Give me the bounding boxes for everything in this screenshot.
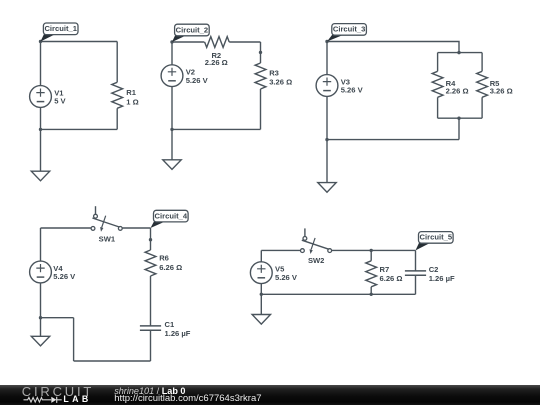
label C2 "1.26 µF" [429,265,455,283]
svg-text:C1: C1 [165,320,175,329]
wire ground stem ckt2 [171,129,173,159]
label R5 "3.26 Ω" [490,79,513,95]
node junction bottom-left C1ckt [39,128,42,131]
ground (circuit 1) [31,171,49,181]
voltage source V3 [316,75,338,97]
wire ground stem [40,129,42,171]
label R3 "3.26 Ω" [269,68,292,86]
wire V4 to SW1 [41,227,92,229]
wire C2 top lead [415,250,417,271]
node parallel bottom junction [457,117,460,120]
svg-text:2.26 Ω: 2.26 Ω [205,58,228,67]
wire V2 top lead [171,42,173,65]
wire R4 top lead [437,53,439,72]
label R1 "1 Ω" [126,88,138,107]
wire V1 bottom lead [40,107,42,129]
label R6 "6.26 Ω" [159,254,182,272]
node junction V4 bottom [39,316,42,319]
wire C2 bottom lead [415,275,417,294]
resistor R7 [366,261,377,287]
wire SW1 to corner [122,227,150,229]
wire R6 top lead [150,228,152,250]
wire ground stem ckt5 [260,294,262,314]
label V2 "5.26 V" [186,68,209,85]
svg-text:Circuit_1: Circuit_1 [44,24,77,33]
wire ground stem ckt3 [326,140,328,183]
node Circuit_1 (top-left junction) [39,40,42,43]
label R2 "2.26 Ω" [205,51,228,67]
wire V2 bottom lead [171,87,173,130]
node junction bottom-left ckt3 [325,138,328,141]
svg-text:3.26 Ω: 3.26 Ω [269,78,292,87]
label V4 "5.26 V" [53,264,76,281]
wire V3 bottom lead [326,96,328,139]
wire V5 bottom lead [260,284,262,295]
wire R3 top lead [260,42,262,63]
wire R1 bottom lead [116,108,118,129]
label R7 "6.26 Ω" [380,265,403,283]
svg-text:Circuit_4: Circuit_4 [155,211,188,220]
label SW1 [99,235,116,244]
net label Circuit_4 [151,210,189,228]
switch SW2 [301,228,332,254]
svg-text:5.26 V: 5.26 V [186,76,209,85]
svg-text:5.26 V: 5.26 V [275,273,298,282]
wire parallel bottom bar [438,117,483,119]
svg-text:R6: R6 [159,254,169,263]
svg-text:Circuit_3: Circuit_3 [333,25,366,34]
label V1 "5 V" [54,88,66,105]
wire Circuit_2 bottom rail [172,128,261,130]
ground (circuit 5) [252,315,270,325]
wire SW2 to R7 to corner [332,249,416,251]
voltage source V4 [30,261,52,283]
wire V4 bottom lead [40,283,42,318]
node Circuit_3 (top-left junction) [325,40,328,43]
wire C1 bottom lead [150,330,152,361]
svg-text:R3: R3 [269,68,279,77]
resistor R6 [145,250,156,276]
net label Circuit_3 [327,24,366,42]
wire Circuit_1 bottom rail [41,128,118,130]
node R7 bottom [370,293,373,296]
switch SW1 [91,206,122,232]
wire V5 to SW2 [261,249,300,251]
wire R5 top lead [481,53,483,72]
capacitor C1 [140,326,161,330]
wire R5 bottom lead [481,97,483,118]
svg-text:1 Ω: 1 Ω [126,98,138,107]
svg-text:5.26 V: 5.26 V [53,272,76,281]
wire R7 bottom lead [370,287,372,295]
node R6 top [149,238,152,241]
voltage source V2 [161,65,183,87]
svg-text:5.26 V: 5.26 V [341,86,364,95]
svg-text:Circuit_2: Circuit_2 [176,25,209,34]
svg-text:Circuit_5: Circuit_5 [420,233,453,242]
label V5 "5.26 V" [275,265,298,282]
resistor R1 [112,82,123,108]
wire R2 right lead [229,41,260,43]
capacitor C2 [405,271,426,275]
wire R3 bottom lead [260,89,262,129]
resistor R2 [205,37,230,48]
resistor R5 [477,71,488,97]
svg-text:3.26 Ω: 3.26 Ω [490,87,513,96]
svg-text:5 V: 5 V [54,97,66,106]
svg-text:R1: R1 [126,88,136,97]
footer url text [114,394,261,404]
wire R4 bottom lead [437,97,439,118]
label V3 "5.26 V" [341,77,364,94]
wire ground stem ckt4 [40,318,42,337]
label R4 "2.26 Ω" [446,79,469,95]
footer title text [114,387,185,396]
wire Circuit_4 bottom rail [74,360,151,362]
wire Circuit_1 top rail [41,41,118,43]
logo resistor + diode motif [22,394,66,405]
label C1 "1.26 µF" [165,320,191,338]
wire Circuit_5 bottom rail [261,293,415,295]
node R7 top [370,249,373,252]
wire R7 top lead [370,250,372,260]
wire parallel top bar [438,52,483,54]
svg-text:SW1: SW1 [99,235,116,244]
voltage source V5 [250,262,272,284]
node R3 top [259,51,262,54]
wire to V4 bottom node [41,317,74,319]
net label Circuit_5 [416,232,454,251]
svg-text:6.26 Ω: 6.26 Ω [380,274,403,283]
wire parallel to bottom rail [458,118,460,139]
node parallel top junction [457,51,460,54]
wire bottom-left riser [73,318,75,361]
svg-text:C2: C2 [429,265,439,274]
wire R1 top lead [116,42,118,83]
wire V1 top lead [40,42,42,86]
wire R6 to C1 [150,276,152,326]
wire V3 top lead [326,42,328,75]
net label Circuit_1 [41,23,79,42]
wire V4 top lead [40,228,42,261]
wire Circuit_3 top rail [327,42,459,53]
svg-text:2.26 Ω: 2.26 Ω [446,87,469,96]
node junction bottom-left ckt2 [170,128,173,131]
resistor R4 [432,71,443,97]
node Circuit_2 (top-left junction) [170,40,173,43]
wire Circuit_3 bottom rail [327,139,459,141]
ground (circuit 2) [163,160,181,170]
footer bar [0,385,540,405]
svg-text:1.26 µF: 1.26 µF [429,274,455,283]
node junction V5 bottom [260,293,263,296]
resistor R3 [255,63,266,89]
ground (circuit 4) [31,336,49,346]
ground (circuit 3) [318,183,336,193]
label SW2 [308,256,324,265]
net label Circuit_2 [172,24,209,42]
svg-text:1.26 µF: 1.26 µF [165,329,191,338]
wire R2 left lead [172,41,204,43]
svg-text:R7: R7 [380,265,390,274]
voltage source V1 [30,86,52,108]
svg-text:SW2: SW2 [308,256,324,265]
wire V5 top lead [260,250,262,261]
CircuitLab logo wordmark "CIRCUIT" [22,385,94,398]
svg-text:6.26 Ω: 6.26 Ω [159,263,182,272]
